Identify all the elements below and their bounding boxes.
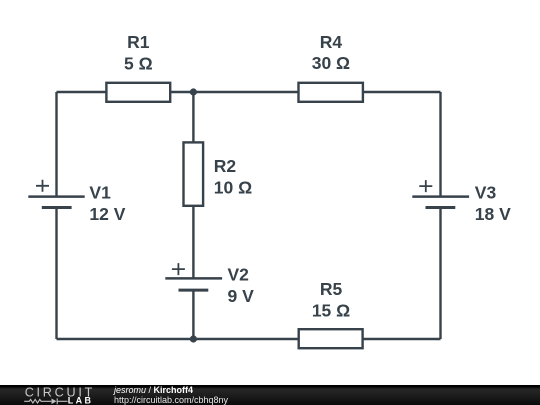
svg-text:R4: R4 bbox=[320, 32, 343, 52]
svg-text:5 Ω: 5 Ω bbox=[124, 53, 153, 73]
svg-text:LAB: LAB bbox=[68, 395, 94, 405]
svg-text:18 V: 18 V bbox=[475, 204, 511, 224]
svg-text:15 Ω: 15 Ω bbox=[312, 301, 350, 321]
svg-text:R1: R1 bbox=[127, 32, 150, 52]
svg-text:30 Ω: 30 Ω bbox=[312, 53, 350, 73]
svg-text:10 Ω: 10 Ω bbox=[214, 178, 252, 198]
svg-text:R2: R2 bbox=[214, 156, 237, 176]
svg-text:9 V: 9 V bbox=[228, 286, 255, 306]
svg-text:V2: V2 bbox=[228, 264, 250, 284]
svg-text:V3: V3 bbox=[475, 183, 497, 203]
svg-text:R5: R5 bbox=[320, 279, 343, 299]
svg-text:12 V: 12 V bbox=[89, 204, 125, 224]
svg-text:V1: V1 bbox=[89, 183, 111, 203]
